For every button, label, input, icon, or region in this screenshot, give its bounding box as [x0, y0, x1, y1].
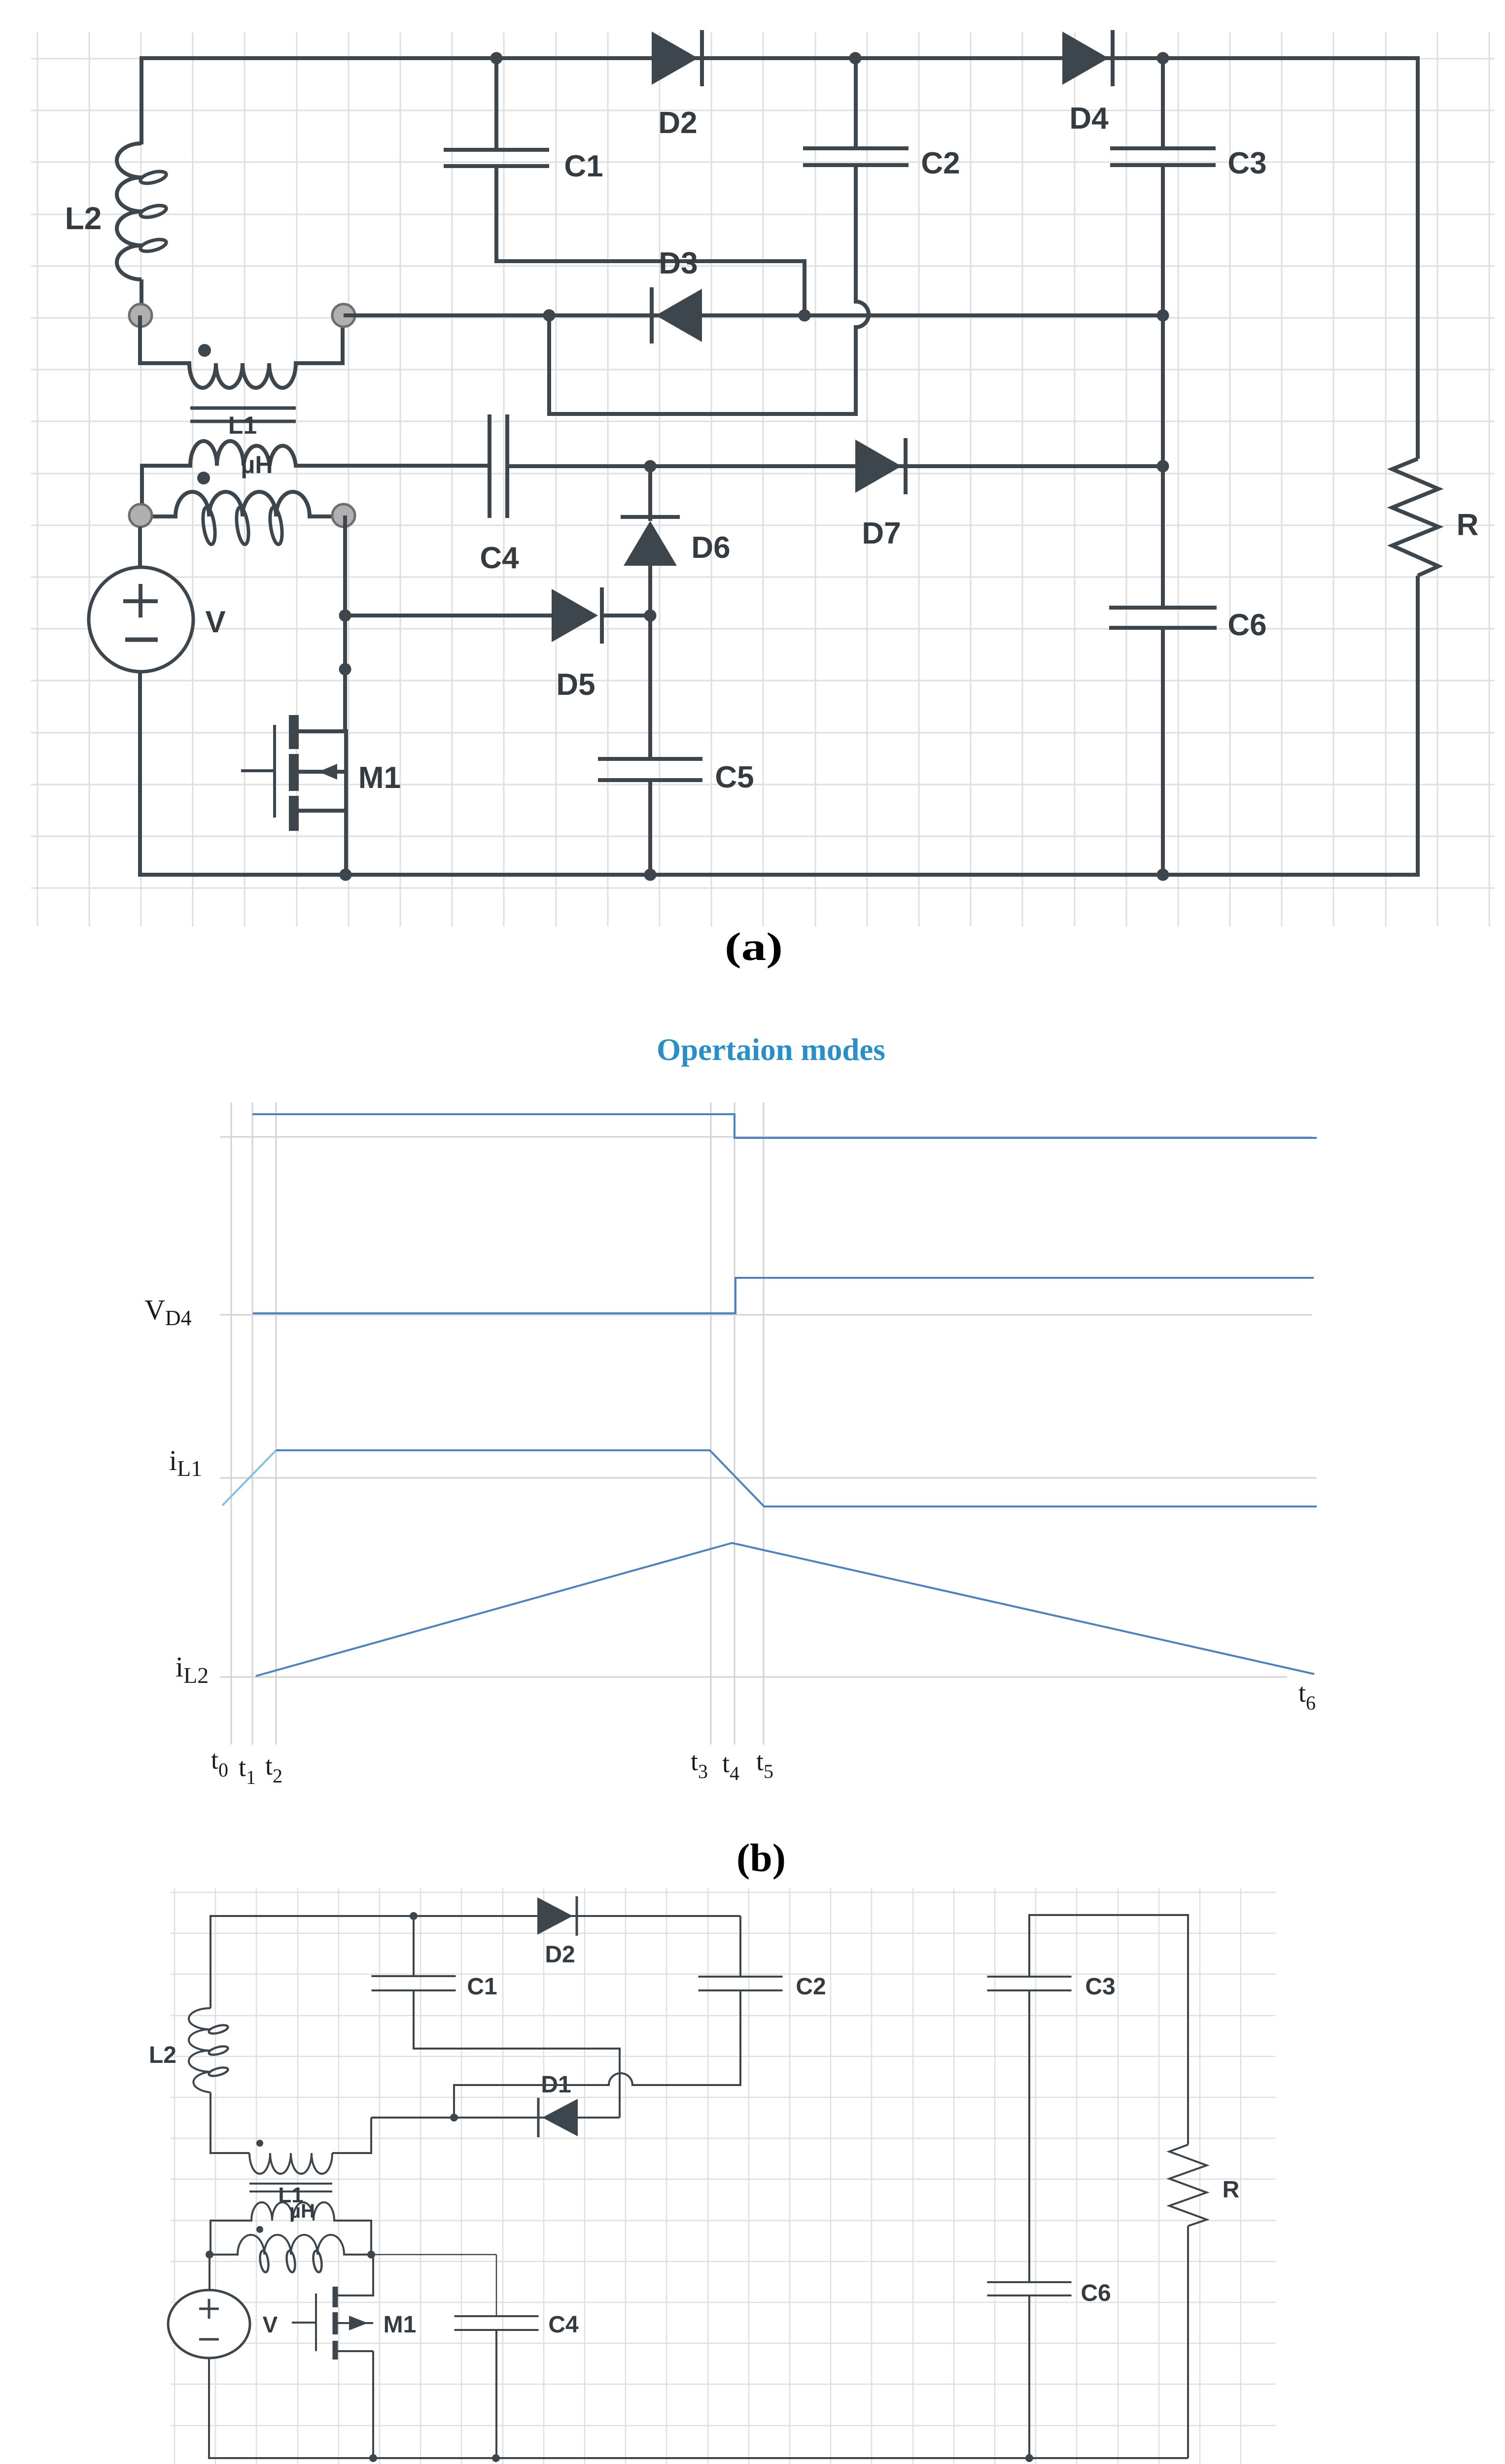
svg-text:D4: D4 [1069, 102, 1109, 136]
svg-text:VD4: VD4 [144, 1294, 192, 1330]
svg-text:L2: L2 [65, 201, 102, 236]
svg-text:t2: t2 [265, 1751, 282, 1787]
svg-text:C1: C1 [564, 149, 603, 183]
svg-text:Opertaion modes: Opertaion modes [657, 1032, 885, 1067]
svg-text:iL2: iL2 [175, 1651, 209, 1688]
svg-text:V: V [263, 2312, 278, 2337]
svg-text:t5: t5 [756, 1746, 773, 1782]
svg-text:(b): (b) [736, 1836, 786, 1880]
svg-text:C3: C3 [1085, 1974, 1115, 2000]
svg-text:C2: C2 [921, 146, 960, 180]
svg-text:D5: D5 [556, 668, 595, 702]
svg-text:t1: t1 [239, 1752, 256, 1788]
svg-text:iL1: iL1 [169, 1444, 202, 1481]
svg-text:R: R [1457, 508, 1479, 542]
svg-text:L2: L2 [149, 2042, 176, 2068]
svg-text:C4: C4 [480, 541, 519, 575]
svg-text:t0: t0 [211, 1745, 228, 1781]
svg-text:M1: M1 [358, 761, 401, 795]
svg-text:C5: C5 [715, 760, 754, 794]
svg-text:D2: D2 [658, 106, 697, 140]
svg-text:C6: C6 [1227, 608, 1266, 642]
svg-text:µH: µH [241, 451, 273, 479]
svg-text:D3: D3 [659, 246, 698, 280]
svg-text:µH: µH [289, 2200, 315, 2222]
svg-text:R: R [1223, 2177, 1240, 2203]
svg-text:C3: C3 [1227, 146, 1266, 180]
svg-text:C4: C4 [548, 2312, 579, 2338]
svg-text:M1: M1 [384, 2312, 417, 2338]
svg-text:L1: L1 [228, 411, 257, 439]
svg-text:(a): (a) [725, 924, 783, 969]
svg-text:C6: C6 [1081, 2280, 1111, 2306]
svg-text:C2: C2 [796, 1974, 826, 2000]
svg-text:D7: D7 [862, 516, 901, 550]
svg-text:D6: D6 [691, 531, 730, 565]
svg-text:D2: D2 [545, 1942, 575, 1968]
svg-text:t3: t3 [691, 1746, 708, 1782]
svg-text:t6: t6 [1298, 1678, 1316, 1714]
svg-text:C1: C1 [467, 1974, 497, 2000]
svg-text:t4: t4 [722, 1748, 739, 1784]
svg-text:V: V [205, 605, 225, 639]
